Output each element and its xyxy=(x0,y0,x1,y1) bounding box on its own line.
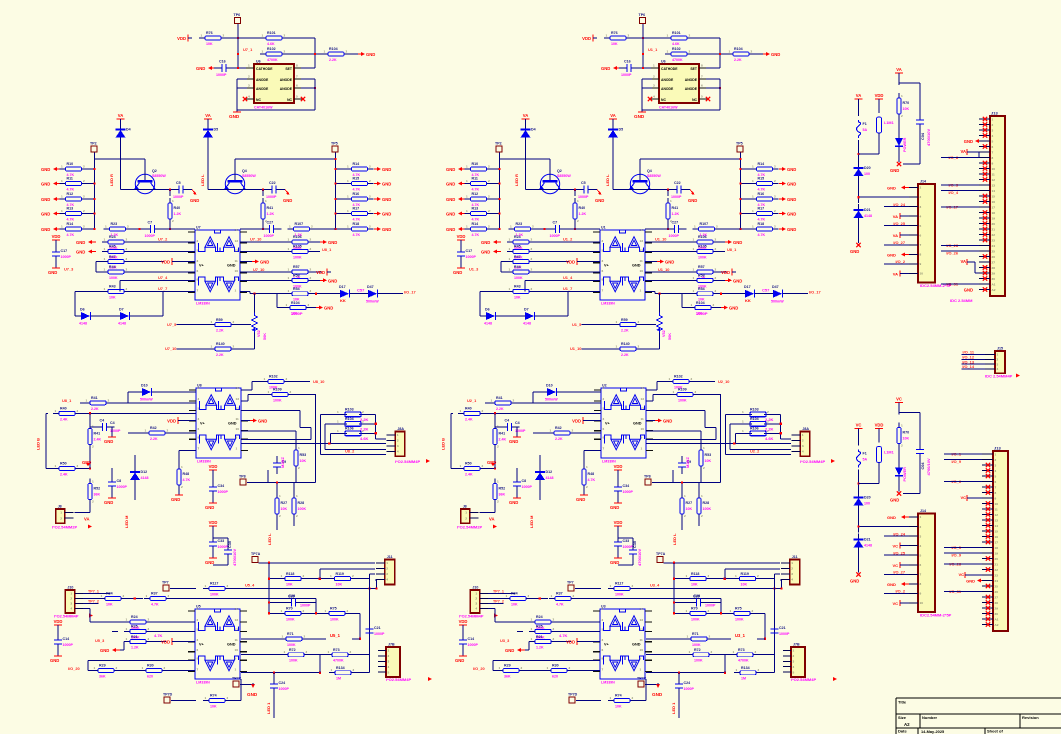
svg-text:1: 1 xyxy=(105,225,107,229)
svg-text:1: 1 xyxy=(673,390,675,394)
svg-text:D17: D17 xyxy=(339,285,346,289)
svg-text:R28: R28 xyxy=(703,501,710,505)
svg-text:S8550W: S8550W xyxy=(242,174,256,178)
svg-text:1: 1 xyxy=(735,574,737,578)
svg-text:GND: GND xyxy=(665,260,674,265)
svg-text:U1_10: U1_10 xyxy=(655,236,666,241)
svg-text:1: 1 xyxy=(61,195,63,199)
svg-text:2: 2 xyxy=(757,574,759,578)
svg-text:2: 2 xyxy=(386,567,388,571)
svg-text:R30: R30 xyxy=(552,664,559,668)
svg-text:R21: R21 xyxy=(536,635,543,639)
svg-text:2: 2 xyxy=(992,123,994,127)
svg-text:R57: R57 xyxy=(293,265,300,269)
svg-text:100K: 100K xyxy=(678,399,687,403)
svg-text:C33: C33 xyxy=(623,539,630,543)
svg-text:2: 2 xyxy=(715,289,717,293)
svg-text:D20: D20 xyxy=(864,166,871,170)
svg-text:D7: D7 xyxy=(119,308,124,312)
svg-text:Sheet of: Sheet of xyxy=(987,729,1003,734)
svg-text:1: 1 xyxy=(802,433,804,437)
svg-text:6: 6 xyxy=(602,648,604,652)
svg-text:10K: 10K xyxy=(903,437,910,441)
svg-text:7: 7 xyxy=(602,289,604,293)
svg-text:V+: V+ xyxy=(199,643,205,647)
svg-text:U8_1: U8_1 xyxy=(62,398,72,403)
svg-text:C7: C7 xyxy=(553,221,558,225)
svg-text:4700/10V: 4700/10V xyxy=(926,129,931,146)
svg-text:4.7K: 4.7K xyxy=(353,218,361,222)
svg-text:1000P: 1000P xyxy=(696,311,708,316)
svg-text:1000P: 1000P xyxy=(578,195,589,199)
svg-text:1: 1 xyxy=(752,195,754,199)
svg-text:R107: R107 xyxy=(700,222,709,226)
svg-text:19: 19 xyxy=(992,216,996,220)
svg-text:VDD: VDD xyxy=(167,419,176,424)
svg-text:I*O2.54MM4P: I*O2.54MM4P xyxy=(791,677,816,682)
svg-text:1: 1 xyxy=(248,64,250,68)
svg-text:1: 1 xyxy=(172,199,174,203)
svg-text:D10: D10 xyxy=(141,384,148,388)
svg-text:R118: R118 xyxy=(286,572,294,576)
svg-text:GND: GND xyxy=(652,692,663,697)
svg-text:V+: V+ xyxy=(605,422,611,426)
svg-text:I*O2.54MM2P: I*O2.54MM2P xyxy=(52,525,77,530)
svg-text:1: 1 xyxy=(347,209,349,213)
svg-text:GND: GND xyxy=(887,186,896,191)
svg-text:50K: 50K xyxy=(668,333,672,340)
svg-text:VDD: VDD xyxy=(721,270,730,275)
svg-text:2.2K: 2.2K xyxy=(150,437,158,441)
svg-text:1: 1 xyxy=(211,344,213,348)
svg-text:3: 3 xyxy=(920,534,922,538)
svg-text:GND: GND xyxy=(787,227,796,232)
svg-text:D21: D21 xyxy=(864,208,871,212)
svg-text:1: 1 xyxy=(531,637,533,641)
svg-text:GND: GND xyxy=(41,182,50,187)
svg-text:I*O2.54MM4P: I*O2.54MM4P xyxy=(395,459,420,464)
svg-text:LED M: LED M xyxy=(124,515,129,528)
svg-text:VA: VA xyxy=(960,149,966,154)
svg-text:10K: 10K xyxy=(300,459,307,463)
svg-text:J10: J10 xyxy=(472,586,478,590)
svg-text:GND: GND xyxy=(771,52,780,57)
svg-text:4700K: 4700K xyxy=(672,58,683,62)
svg-text:1: 1 xyxy=(551,594,553,598)
svg-text:3: 3 xyxy=(70,602,72,606)
svg-text:R42: R42 xyxy=(555,426,562,430)
svg-text:5A: 5A xyxy=(863,458,868,462)
svg-text:VDD: VDD xyxy=(582,36,591,41)
svg-text:100K: 100K xyxy=(286,617,295,621)
svg-text:2.2K: 2.2K xyxy=(216,329,224,333)
svg-text:4.7K: 4.7K xyxy=(556,603,564,607)
svg-text:A2: A2 xyxy=(995,623,999,627)
svg-text:2: 2 xyxy=(995,458,997,462)
svg-text:C21: C21 xyxy=(779,626,786,630)
svg-text:1: 1 xyxy=(653,64,655,68)
svg-text:U1_1: U1_1 xyxy=(648,47,658,52)
svg-text:6: 6 xyxy=(197,269,199,273)
svg-text:I/O_27: I/O_27 xyxy=(893,570,905,575)
svg-text:GND: GND xyxy=(104,500,113,505)
svg-text:2: 2 xyxy=(774,209,776,213)
svg-text:1: 1 xyxy=(145,429,147,433)
svg-text:A1: A1 xyxy=(992,282,996,286)
svg-text:100: 100 xyxy=(864,172,870,176)
svg-text:10K: 10K xyxy=(109,295,116,299)
svg-text:4700/10V: 4700/10V xyxy=(637,549,642,566)
svg-text:5: 5 xyxy=(920,224,922,228)
svg-text:1: 1 xyxy=(101,594,103,598)
svg-text:1: 1 xyxy=(509,238,511,242)
svg-text:4: 4 xyxy=(653,95,655,99)
svg-text:1: 1 xyxy=(466,225,468,229)
svg-text:R30: R30 xyxy=(147,664,154,668)
svg-text:2: 2 xyxy=(369,209,371,213)
svg-text:R119: R119 xyxy=(336,572,344,576)
svg-text:1: 1 xyxy=(499,666,501,670)
svg-text:2: 2 xyxy=(774,179,776,183)
svg-text:1: 1 xyxy=(742,429,744,433)
svg-text:C8: C8 xyxy=(522,479,527,483)
svg-text:21: 21 xyxy=(995,562,999,566)
svg-text:U3_3: U3_3 xyxy=(500,638,510,643)
svg-text:R106: R106 xyxy=(293,235,302,239)
svg-text:GND: GND xyxy=(964,139,973,144)
svg-text:GND: GND xyxy=(634,114,645,119)
svg-text:13: 13 xyxy=(640,239,644,243)
svg-text:4: 4 xyxy=(992,134,994,138)
svg-text:GND: GND xyxy=(729,306,738,311)
svg-text:2: 2 xyxy=(284,50,286,54)
svg-text:GND: GND xyxy=(610,505,619,510)
svg-text:GND: GND xyxy=(258,419,267,424)
svg-text:23: 23 xyxy=(995,573,999,577)
svg-text:C33: C33 xyxy=(218,539,225,543)
svg-text:4.6K: 4.6K xyxy=(267,42,275,46)
svg-text:3: 3 xyxy=(602,638,604,642)
svg-text:3: 3 xyxy=(653,84,655,88)
svg-text:1: 1 xyxy=(752,165,754,169)
svg-text:GND: GND xyxy=(41,227,50,232)
svg-text:R13: R13 xyxy=(67,207,74,211)
svg-text:TP7_1: TP7_1 xyxy=(493,590,504,594)
svg-text:2: 2 xyxy=(77,464,79,468)
svg-text:4.7K: 4.7K xyxy=(353,233,361,237)
svg-text:2: 2 xyxy=(532,225,534,229)
svg-text:LED B: LED B xyxy=(441,438,446,450)
svg-text:1: 1 xyxy=(268,390,270,394)
svg-text:R41: R41 xyxy=(672,206,679,210)
svg-text:R102: R102 xyxy=(672,47,681,51)
svg-text:IDC 2.54MM4P: IDC 2.54MM4P xyxy=(985,374,1013,379)
svg-text:VDD: VDD xyxy=(209,520,218,525)
svg-text:V+: V+ xyxy=(200,422,206,426)
svg-text:1: 1 xyxy=(640,668,642,672)
svg-text:TP2: TP2 xyxy=(495,142,502,146)
svg-text:1000P: 1000P xyxy=(671,195,682,199)
svg-text:R106: R106 xyxy=(345,427,354,431)
svg-text:R50: R50 xyxy=(465,462,472,466)
svg-text:2: 2 xyxy=(684,514,686,518)
svg-text:R109: R109 xyxy=(678,388,687,392)
svg-text:LM339N: LM339N xyxy=(196,302,210,306)
svg-text:U2_2: U2_2 xyxy=(750,448,760,453)
svg-text:I/O_20: I/O_20 xyxy=(473,666,485,671)
svg-text:CATHODE: CATHODE xyxy=(661,67,678,71)
svg-text:R106: R106 xyxy=(698,235,707,239)
svg-text:R41: R41 xyxy=(94,432,101,436)
svg-text:1: 1 xyxy=(670,199,672,203)
svg-text:10K: 10K xyxy=(206,42,213,46)
svg-text:1: 1 xyxy=(610,696,612,700)
svg-text:13: 13 xyxy=(235,618,239,622)
svg-text:1: 1 xyxy=(61,225,63,229)
svg-text:D21: D21 xyxy=(864,538,871,542)
svg-text:F1: F1 xyxy=(863,452,867,456)
svg-text:28: 28 xyxy=(992,266,996,270)
svg-text:10K: 10K xyxy=(741,583,748,587)
svg-text:TP7A: TP7A xyxy=(251,552,261,556)
svg-text:F1: F1 xyxy=(863,122,867,126)
svg-text:100K: 100K xyxy=(210,593,219,597)
svg-text:2.2K: 2.2K xyxy=(555,437,563,441)
svg-text:M2HZ: M2HZ xyxy=(685,457,690,468)
svg-text:1.2K: 1.2K xyxy=(267,212,275,216)
svg-text:1: 1 xyxy=(742,419,744,423)
svg-text:7: 7 xyxy=(920,243,922,247)
svg-text:2: 2 xyxy=(123,594,125,598)
svg-text:R54: R54 xyxy=(698,287,705,291)
svg-text:100K: 100K xyxy=(330,617,339,621)
svg-text:2: 2 xyxy=(774,165,776,169)
svg-text:VA: VA xyxy=(489,517,495,522)
svg-text:R16: R16 xyxy=(353,192,360,196)
svg-text:1: 1 xyxy=(701,494,703,498)
svg-text:J13: J13 xyxy=(994,446,1001,451)
svg-text:1: 1 xyxy=(289,225,291,229)
svg-text:27: 27 xyxy=(992,260,996,264)
svg-text:4: 4 xyxy=(388,665,390,669)
svg-text:C5: C5 xyxy=(176,181,181,185)
svg-text:8: 8 xyxy=(197,278,199,282)
svg-text:1: 1 xyxy=(920,186,922,190)
svg-text:D47: D47 xyxy=(367,285,374,289)
svg-text:LED L: LED L xyxy=(200,174,205,186)
svg-text:5: 5 xyxy=(992,139,994,143)
svg-text:1: 1 xyxy=(142,666,144,670)
svg-text:12: 12 xyxy=(640,628,644,632)
svg-text:Q2: Q2 xyxy=(152,169,157,173)
svg-text:2: 2 xyxy=(126,257,128,261)
svg-text:3: 3 xyxy=(992,128,994,132)
svg-text:4: 4 xyxy=(802,450,804,454)
svg-text:VA: VA xyxy=(523,113,529,118)
svg-text:13: 13 xyxy=(992,183,996,187)
svg-text:GND: GND xyxy=(601,66,610,71)
svg-text:U1_3: U1_3 xyxy=(469,266,479,271)
svg-text:R14: R14 xyxy=(472,222,479,226)
svg-text:4.7K: 4.7K xyxy=(758,233,766,237)
svg-text:GND: GND xyxy=(247,692,258,697)
svg-text:2: 2 xyxy=(521,666,523,670)
svg-text:100K: 100K xyxy=(692,643,701,647)
svg-text:GND: GND xyxy=(82,460,91,465)
svg-text:SET: SET xyxy=(285,67,293,71)
svg-text:C30: C30 xyxy=(228,541,232,548)
svg-text:26: 26 xyxy=(995,590,999,594)
svg-text:D7: D7 xyxy=(524,308,529,312)
svg-text:2: 2 xyxy=(767,410,769,414)
svg-text:5A: 5A xyxy=(863,128,868,132)
svg-text:1: 1 xyxy=(466,165,468,169)
svg-text:1: 1 xyxy=(330,574,332,578)
svg-text:D5: D5 xyxy=(619,128,624,132)
svg-text:R45: R45 xyxy=(514,245,521,249)
svg-text:GND: GND xyxy=(227,264,236,268)
svg-text:2: 2 xyxy=(715,247,717,251)
svg-text:2: 2 xyxy=(397,439,399,443)
svg-text:1: 1 xyxy=(693,276,695,280)
svg-text:1.2K: 1.2K xyxy=(672,212,680,216)
svg-text:GND: GND xyxy=(966,579,975,584)
svg-text:2: 2 xyxy=(488,179,490,183)
svg-text:R12: R12 xyxy=(67,192,74,196)
svg-text:R59: R59 xyxy=(621,318,628,322)
svg-text:VC: VC xyxy=(892,563,898,568)
svg-text:VDD: VDD xyxy=(177,36,186,41)
svg-text:1: 1 xyxy=(610,584,612,588)
svg-text:R44: R44 xyxy=(109,265,116,269)
svg-text:2.4K: 2.4K xyxy=(94,438,102,442)
svg-text:I*O2.54MM4P: I*O2.54MM4P xyxy=(386,677,411,682)
svg-text:100K: 100K xyxy=(703,507,712,511)
svg-text:VDD: VDD xyxy=(161,260,170,265)
svg-text:R45: R45 xyxy=(109,245,116,249)
svg-text:R47: R47 xyxy=(514,255,521,259)
svg-text:2: 2 xyxy=(92,500,94,504)
svg-text:500mW: 500mW xyxy=(545,398,558,402)
svg-text:D20: D20 xyxy=(864,496,871,500)
svg-text:GND: GND xyxy=(890,168,899,173)
svg-text:2: 2 xyxy=(793,654,795,658)
svg-text:9: 9 xyxy=(641,436,643,440)
svg-text:5: 5 xyxy=(197,249,199,253)
svg-text:2: 2 xyxy=(350,650,352,654)
svg-text:U2_10: U2_10 xyxy=(718,379,729,384)
svg-text:3: 3 xyxy=(248,84,250,88)
svg-text:1000P: 1000P xyxy=(550,234,561,238)
svg-text:36K: 36K xyxy=(99,675,106,679)
svg-text:4700K: 4700K xyxy=(267,58,278,62)
svg-text:R16: R16 xyxy=(758,192,765,196)
svg-text:R58: R58 xyxy=(293,274,300,278)
svg-text:1: 1 xyxy=(460,464,462,468)
svg-text:14: 14 xyxy=(640,607,644,611)
svg-text:25: 25 xyxy=(995,584,999,588)
svg-text:1: 1 xyxy=(347,165,349,169)
svg-text:2: 2 xyxy=(306,650,308,654)
svg-text:9: 9 xyxy=(236,436,238,440)
svg-text:2: 2 xyxy=(167,429,169,433)
svg-text:14: 14 xyxy=(236,386,240,390)
svg-text:2: 2 xyxy=(304,634,306,638)
svg-text:R71: R71 xyxy=(692,632,699,636)
svg-text:1: 1 xyxy=(791,561,793,565)
svg-text:8: 8 xyxy=(602,657,604,661)
svg-text:Title: Title xyxy=(898,700,907,705)
svg-text:1000P: 1000P xyxy=(374,632,385,636)
svg-text:22: 22 xyxy=(992,233,996,237)
svg-text:2: 2 xyxy=(713,303,715,307)
svg-text:1: 1 xyxy=(386,561,388,565)
svg-text:C5: C5 xyxy=(581,181,586,185)
svg-text:GND: GND xyxy=(446,167,455,172)
svg-text:V52: V52 xyxy=(257,330,261,337)
svg-text:R72: R72 xyxy=(289,648,296,652)
svg-text:2: 2 xyxy=(83,179,85,183)
svg-text:R10: R10 xyxy=(67,162,74,166)
svg-text:NC: NC xyxy=(256,98,261,102)
svg-text:100K: 100K xyxy=(287,643,296,647)
svg-text:12: 12 xyxy=(235,628,239,632)
svg-text:U2_1: U2_1 xyxy=(467,398,477,403)
svg-text:U8_1: U8_1 xyxy=(727,247,737,252)
svg-text:4.7K: 4.7K xyxy=(353,188,361,192)
svg-text:1: 1 xyxy=(331,668,333,672)
svg-text:GND: GND xyxy=(887,582,896,587)
svg-text:NC: NC xyxy=(661,98,666,102)
svg-text:R104: R104 xyxy=(734,47,743,51)
svg-text:GND: GND xyxy=(50,658,59,663)
svg-text:1000P: 1000P xyxy=(117,485,128,489)
svg-text:Q2: Q2 xyxy=(557,169,562,173)
svg-text:C17: C17 xyxy=(61,249,68,253)
svg-text:1: 1 xyxy=(92,480,94,484)
svg-text:R102: R102 xyxy=(674,375,683,379)
svg-text:2: 2 xyxy=(638,344,640,348)
svg-text:TP8: TP8 xyxy=(239,475,246,479)
svg-text:1: 1 xyxy=(510,225,512,229)
svg-text:16: 16 xyxy=(992,200,996,204)
svg-text:4: 4 xyxy=(920,544,922,548)
svg-text:500mW: 500mW xyxy=(140,398,153,402)
svg-text:2.2K: 2.2K xyxy=(621,353,629,357)
svg-text:1: 1 xyxy=(235,668,237,672)
svg-text:1000P: 1000P xyxy=(466,255,477,259)
svg-text:V52: V52 xyxy=(662,330,666,337)
svg-text:6: 6 xyxy=(198,427,200,431)
svg-text:GND: GND xyxy=(41,212,50,217)
svg-text:8: 8 xyxy=(992,156,994,160)
svg-text:1: 1 xyxy=(347,179,349,183)
svg-text:2: 2 xyxy=(83,195,85,199)
svg-text:2: 2 xyxy=(715,267,717,271)
svg-text:R14: R14 xyxy=(67,222,74,226)
svg-text:2: 2 xyxy=(531,287,533,291)
svg-text:4: 4 xyxy=(248,95,250,99)
svg-text:21: 21 xyxy=(992,227,996,231)
svg-text:2: 2 xyxy=(703,466,705,470)
svg-text:10K: 10K xyxy=(611,42,618,46)
svg-text:1: 1 xyxy=(616,320,618,324)
svg-text:4.7K: 4.7K xyxy=(67,233,75,237)
svg-text:LED R: LED R xyxy=(109,174,114,186)
svg-text:R17: R17 xyxy=(758,207,765,211)
svg-text:1000P: 1000P xyxy=(216,73,227,77)
svg-text:1: 1 xyxy=(104,257,106,261)
